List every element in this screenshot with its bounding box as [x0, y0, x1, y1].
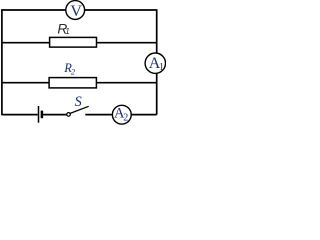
- wire: R2 row horizontal: [2, 82, 157, 84]
- wire: R1 row horizontal: [2, 42, 157, 44]
- wire: bottom rail battery-to-switch segment: [43, 114, 67, 116]
- switch S: lever arm (open): [70, 106, 89, 113]
- switch S: pivot contact circle: [67, 113, 71, 117]
- ammeter A1: circle: [145, 53, 165, 73]
- svg-text:R1: R1: [57, 22, 69, 37]
- ammeter A2: circle: [112, 105, 131, 124]
- svg-text:S: S: [75, 94, 82, 110]
- wire: bottom rail left segment (to battery): [2, 114, 38, 116]
- svg-text:V: V: [70, 3, 82, 20]
- resistor R1: box: [50, 37, 97, 47]
- resistor R2: box: [49, 78, 96, 88]
- wire: bottom rail switch-contact-to-right segment: [85, 114, 156, 116]
- battery cell: long plate (positive): [38, 106, 40, 123]
- svg-text:R2: R2: [63, 61, 76, 77]
- wire: outer loop (left vertical, top rail, right vertical): [2, 10, 157, 115]
- battery cell: short thick plate (negative): [41, 111, 44, 119]
- voltmeter V: circle: [66, 1, 85, 20]
